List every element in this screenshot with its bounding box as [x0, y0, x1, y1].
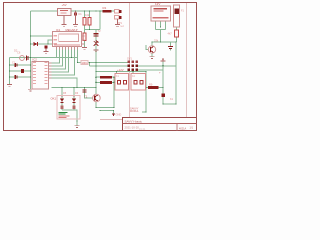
- svg-text:GND: GND: [116, 112, 122, 116]
- node cap row3 right: [30, 76, 32, 78]
- resistor R7 solid: [100, 76, 112, 79]
- capacitor C5 at IC1: [44, 46, 49, 54]
- svg-text:19:41: 19:41: [139, 128, 146, 131]
- svg-text:12V: 12V: [155, 2, 160, 6]
- wire regulator out to R1: [71, 10, 103, 12]
- wire relay1 top pin: [116, 72, 118, 74]
- wire x146 foot: [142, 111, 146, 113]
- IC4 box top right: [151, 6, 171, 21]
- capacitor C2 electrolytic: [21, 69, 24, 73]
- wire R4 stub: [89, 11, 91, 18]
- relay K1 box: [115, 74, 129, 91]
- node R7 tap: [95, 76, 97, 78]
- svg-text:JP1: JP1: [118, 21, 123, 25]
- wire join y29.5: [85, 29, 101, 31]
- wire U3 pin c: [165, 21, 167, 30]
- ground opto: [75, 126, 80, 128]
- node emitter right: [113, 107, 115, 109]
- wire R5 to gnd: [84, 41, 86, 48]
- wire staircase pin3: [52, 49, 63, 66]
- svg-text:D2: D2: [14, 48, 18, 52]
- wire Q2 base: [146, 45, 148, 50]
- junction dots: [9, 10, 177, 122]
- wire pin x71.5 to xtal row: [71, 49, 73, 57]
- node rail y36: [30, 35, 32, 37]
- IC1 bottom pin stubs: [57, 47, 78, 50]
- wire x146 column: [145, 72, 147, 113]
- ground under C4: [94, 50, 99, 52]
- wire staircase pin7: [52, 49, 75, 75]
- wire U3 pins join: [156, 29, 166, 31]
- node rail y44: [30, 43, 32, 45]
- relay K2 box: [131, 74, 146, 91]
- wire to IC1 pin row left y36: [31, 35, 53, 37]
- svg-text:MEGA8-P: MEGA8-P: [66, 28, 78, 32]
- wire staircase pin4: [52, 49, 66, 69]
- IC2 pin labels right: [45, 62, 48, 84]
- node y42 x152: [151, 41, 153, 43]
- svg-text:C6: C6: [17, 51, 21, 55]
- node trunk x96 y66: [95, 65, 97, 67]
- node cap row2 right: [30, 70, 32, 72]
- node x176 y104: [175, 103, 177, 105]
- node cap row1 left: [9, 64, 11, 66]
- base cap marks: [83, 90, 87, 92]
- svg-text:2021-10-20: 2021-10-20: [125, 125, 140, 129]
- fuse F1: [174, 5, 180, 27]
- opto diode A: [60, 99, 64, 104]
- ground under IC3: [62, 16, 67, 27]
- resistor R8 solid: [100, 81, 112, 84]
- relay K2 contacts: [134, 81, 143, 84]
- wire x96 mid column: [95, 63, 97, 88]
- svg-text:4021A: 4021A: [179, 127, 187, 130]
- wire staircase pin5: [52, 49, 69, 72]
- node x146 feed: [145, 71, 147, 73]
- IC2 box: [32, 62, 49, 90]
- LED D2: [34, 42, 38, 46]
- wire GND left rail: [9, 58, 11, 85]
- wire staircase pin8 to bus: [77, 49, 79, 62]
- resistor R4: [88, 18, 91, 26]
- relay K1 contacts: [117, 81, 126, 84]
- wire right column x176: [175, 66, 177, 104]
- node relay1 feed: [116, 71, 118, 73]
- svg-text:100n: 100n: [82, 61, 88, 65]
- jumper JP1 bottom: [115, 16, 122, 27]
- svg-text:33k: 33k: [154, 38, 159, 42]
- wire R7 lead: [96, 76, 100, 78]
- wire R1 to JP: [112, 10, 115, 12]
- wire x100 drop: [99, 11, 101, 30]
- node gnd row left: [99, 110, 101, 112]
- node opto B: [73, 87, 75, 89]
- frame divider line right: [186, 3, 188, 118]
- resistor R6: [81, 61, 88, 65]
- svg-text:MODUL: MODUL: [130, 110, 139, 113]
- wire opto bottom join: [62, 110, 77, 126]
- node cap row2 left: [9, 70, 11, 72]
- wire x176 mid: [175, 42, 177, 66]
- title block left stub line: [100, 119, 122, 121]
- ground under R5: [82, 48, 87, 50]
- frame border: [4, 3, 197, 131]
- svg-text:SV1: SV1: [127, 56, 132, 60]
- svg-text:SAVVY-basic: SAVVY-basic: [125, 119, 143, 123]
- capacitor C1: [15, 63, 17, 67]
- IC1 box: [53, 32, 82, 47]
- node opto chain A top: [61, 95, 63, 97]
- title block top edge: [122, 117, 197, 119]
- wire under R4: [89, 25, 91, 30]
- wire branch up to IC1 pin y40: [48, 40, 53, 44]
- svg-text:IC2: IC2: [33, 57, 38, 61]
- ground y110 row: [112, 114, 115, 117]
- node opto A: [61, 87, 63, 89]
- opto green label: [59, 112, 68, 115]
- node cap row3 left: [9, 76, 11, 78]
- wire under R3: [84, 25, 86, 33]
- ground VCC rail bottom: [28, 89, 33, 91]
- wire opto chain A: [61, 88, 63, 99]
- node x163 y88: [162, 87, 164, 89]
- ground x163 top: [161, 58, 166, 62]
- wire U3 pin b: [160, 21, 162, 27]
- wire emitter row y107.5: [96, 107, 114, 109]
- wire down from U3: [160, 30, 162, 43]
- node emitter left: [95, 107, 97, 109]
- svg-text:OK1: OK1: [51, 97, 57, 101]
- regulator IC3: [58, 9, 72, 16]
- node U3 mid pin: [160, 26, 162, 28]
- svg-text:C1: C1: [12, 60, 16, 64]
- svg-text:+12V: +12V: [117, 68, 124, 72]
- node R4 top: [89, 10, 91, 12]
- capacitor C3: [15, 75, 17, 79]
- node T1 col: [95, 87, 97, 89]
- node branch x48: [47, 43, 49, 45]
- wire R3 stub: [84, 11, 86, 18]
- node opto foot: [76, 120, 78, 122]
- node trunk x77.5: [77, 62, 79, 64]
- wire gnd row y110.5: [100, 111, 114, 114]
- wire trunk y66: [89, 63, 91, 67]
- opto box OK1: [57, 96, 80, 120]
- resistor R5: [83, 33, 86, 41]
- node y42 x176: [175, 41, 177, 43]
- ground left rail: [7, 85, 12, 87]
- capacitor C6 polarized: [26, 56, 28, 61]
- transistor T1: [93, 94, 101, 102]
- resistor R9 solid: [148, 86, 159, 89]
- wire cap row y65: [10, 64, 31, 66]
- node y42 x160.5: [160, 41, 162, 43]
- wire IC2 out row y88: [52, 87, 97, 89]
- node R8 right: [113, 82, 115, 84]
- diode D1: [73, 11, 78, 26]
- wire bus trunk y62.5: [78, 62, 83, 64]
- wire T1 collector: [95, 88, 97, 95]
- wire to IC1 pin y44 with LED: [31, 43, 53, 45]
- node y78 opto: [76, 87, 78, 89]
- wire pin1 drop: [56, 49, 58, 57]
- node opto chain B top: [73, 95, 75, 97]
- wire fuse to R10: [176, 27, 178, 30]
- node x163 y104: [162, 103, 164, 105]
- header SV1: [128, 61, 139, 72]
- svg-text:T1: T1: [84, 95, 88, 99]
- node trunk x96 y71.5: [95, 71, 97, 73]
- resistor R1 solid: [103, 10, 112, 13]
- wire staircase pin2: [52, 49, 60, 63]
- node cap row1 right: [30, 64, 32, 66]
- node pin7 xtal row: [71, 57, 73, 59]
- wire header right row2: [138, 69, 163, 71]
- node R3 top: [84, 10, 86, 12]
- wire header right row1: [138, 65, 176, 67]
- wire opto chain B low: [73, 103, 75, 110]
- wire base row y42: [152, 41, 176, 43]
- wire T1 emitter: [95, 102, 97, 108]
- wire right column x163: [162, 62, 164, 105]
- node reg out: [75, 10, 77, 12]
- opto diode A2: [60, 106, 63, 110]
- node relay2 feed: [132, 71, 134, 73]
- resistor R3: [83, 18, 86, 26]
- diode D3 marks: [94, 41, 99, 46]
- wire +12V trunk y71.5: [96, 71, 146, 73]
- node rail y57.5: [30, 57, 32, 59]
- IC1 right pin stubs: [82, 36, 85, 44]
- svg-text:R1: R1: [103, 6, 107, 10]
- ground Q2: [150, 57, 155, 59]
- node trunk x89.5: [89, 62, 91, 64]
- opto diode B2: [72, 106, 75, 110]
- wire cap row y71: [10, 70, 31, 72]
- capacitor C8: [168, 46, 173, 48]
- node gnd row right: [113, 110, 115, 112]
- svg-text:4k7: 4k7: [168, 31, 173, 35]
- opto red label: [59, 115, 70, 117]
- wire bottom right U: [163, 103, 176, 105]
- svg-text:R9: R9: [149, 83, 153, 87]
- title block left edge: [122, 118, 124, 131]
- node R1 left: [99, 10, 101, 12]
- wire U3 pin a: [155, 21, 157, 30]
- node C4 top: [95, 10, 97, 12]
- IC2 right pin stubs: [49, 63, 52, 78]
- node trunk x96 y62.5: [95, 62, 97, 64]
- wire cap row y77: [10, 76, 31, 78]
- wire +5V top rail: [31, 10, 58, 12]
- wire trunk y66: [90, 65, 129, 67]
- resistor R10: [175, 30, 179, 37]
- wire opto chain B: [73, 88, 75, 99]
- wire xtal row y57.5: [10, 58, 78, 63]
- wire VCC left rail: [30, 11, 32, 89]
- wire T1 base: [85, 88, 93, 99]
- node x163 row1: [162, 65, 164, 67]
- title block cell divider: [176, 124, 178, 131]
- wire R9 leads: [146, 87, 148, 89]
- diode D4 on x163: [161, 93, 165, 97]
- wire y78 row to opto net: [52, 78, 78, 88]
- node R7 right: [113, 76, 115, 78]
- svg-text:IC1: IC1: [56, 28, 61, 32]
- jumper JP1 top: [115, 10, 122, 14]
- frame divider line left: [129, 3, 131, 118]
- capacitor C4: [94, 34, 99, 36]
- wire opto chain A low: [61, 103, 63, 110]
- wire Q2 emitter: [151, 53, 153, 56]
- wire R10 to node: [176, 37, 178, 42]
- IC2 pin labels left: [33, 62, 36, 84]
- wire C4 column: [95, 30, 97, 63]
- wire relay1 bottom pin: [113, 77, 115, 107]
- wire relay2 top pin: [132, 72, 134, 74]
- wire R8 lead: [96, 81, 100, 83]
- svg-text:1/1: 1/1: [190, 126, 194, 129]
- wire Q2 collector: [151, 42, 153, 46]
- svg-text:10k: 10k: [85, 13, 90, 17]
- wire C8 stub: [170, 42, 172, 46]
- title block row divider: [123, 123, 197, 125]
- opto diode B: [72, 99, 76, 104]
- node base tap: [84, 87, 86, 89]
- node x146 y112: [145, 111, 147, 113]
- node R8 tap: [95, 82, 97, 84]
- node join R3R4: [89, 29, 91, 31]
- svg-text:+5V: +5V: [62, 3, 67, 7]
- wire C8 low stub: [170, 49, 172, 51]
- node x146 y88: [145, 87, 147, 89]
- transistor Q2: [148, 46, 155, 53]
- crystal Q1: [20, 56, 25, 61]
